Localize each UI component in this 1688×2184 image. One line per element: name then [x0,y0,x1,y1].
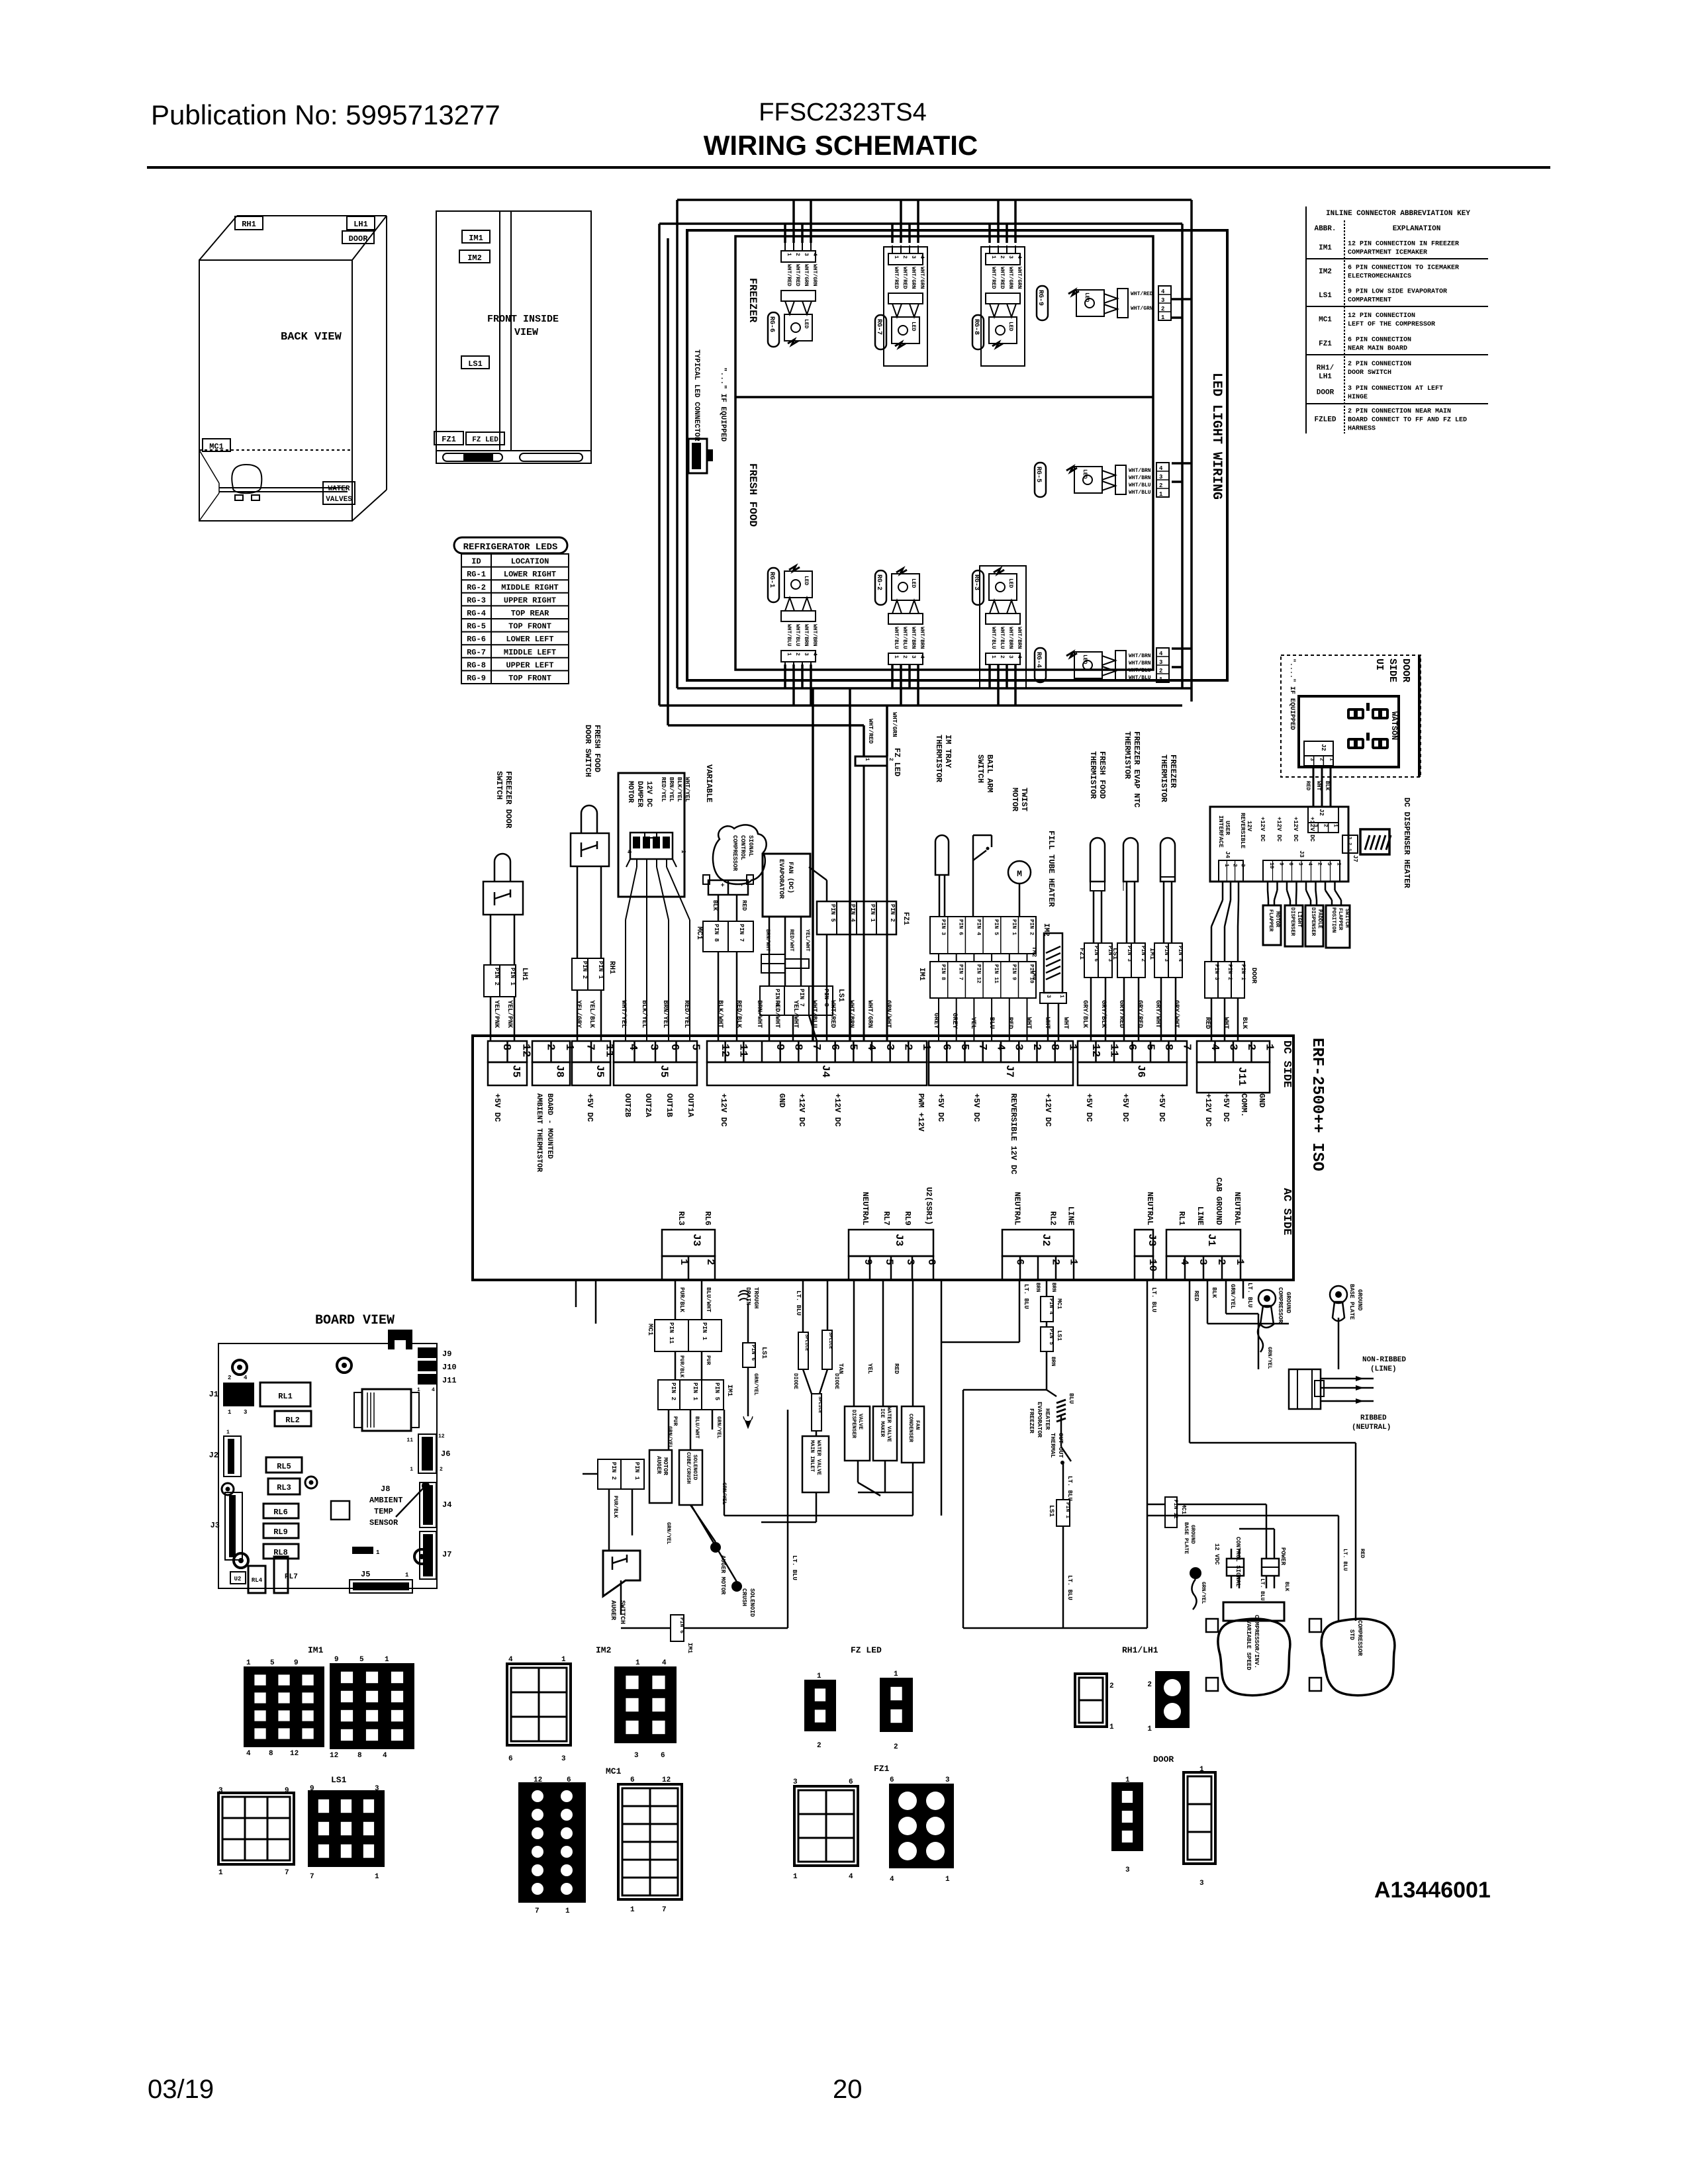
svg-text:BASE PLATE: BASE PLATE [1183,1522,1189,1554]
svg-text:INTERFACE: INTERFACE [1217,815,1224,848]
svg-text:2: 2 [902,655,908,659]
svg-text:TOP FRONT: TOP FRONT [508,622,551,631]
svg-text:DOOR: DOOR [1400,659,1411,682]
svg-text:LOWER LEFT: LOWER LEFT [506,635,553,644]
svg-text:VALVE: VALVE [857,1414,863,1430]
dispenser paddle box [1305,905,1323,946]
svg-text:6 PIN CONNECTION: 6 PIN CONNECTION [1348,336,1411,343]
svg-text:WHT/BRN: WHT/BRN [1129,475,1151,481]
svg-text:PIN 2: PIN 2 [581,961,588,979]
svg-text:WHT/GRN: WHT/GRN [803,264,809,287]
splice diode column 1 [802,1280,804,1332]
svg-text:1: 1 [561,1656,566,1664]
relay RL3 [268,1479,300,1494]
svg-text:9 PIN LOW SIDE EVAPORATOR: 9 PIN LOW SIDE EVAPORATOR [1348,289,1447,296]
svg-text:RG-1: RG-1 [768,572,775,588]
svg-text:GRY/RED: GRY/RED [1136,1000,1144,1028]
svg-text:LIGHT: LIGHT [1296,911,1302,927]
svg-text:CAB GROUND: CAB GROUND [1214,1177,1223,1225]
connector J1 board view [223,1383,254,1406]
svg-text:WHT/YEL: WHT/YEL [684,777,690,802]
connector J2 ac side [1002,1230,1074,1256]
auger pins 2 1 [598,1459,644,1489]
svg-text:RG-8: RG-8 [467,660,486,670]
svg-text:AMBIENT THERMISTOR: AMBIENT THERMISTOR [535,1093,543,1172]
svg-text:RH1: RH1 [242,220,256,229]
relay RL2 [275,1411,311,1426]
svg-text:7: 7 [285,1869,289,1877]
svg-text:ICE MAKER: ICE MAKER [879,1408,885,1437]
svg-text:1: 1 [1336,862,1342,866]
svg-text:(NEUTRAL): (NEUTRAL) [1352,1424,1391,1432]
svg-text:1: 1 [864,758,870,761]
svg-text:PWM +12V: PWM +12V [916,1093,925,1132]
svg-text:TYPICAL LED CONNECTOR: TYPICAL LED CONNECTOR [692,349,700,441]
svg-text:SPLICE: SPLICE [827,1332,833,1349]
svg-text:NEAR MAIN BOARD: NEAR MAIN BOARD [1348,345,1407,352]
connector J6 dc side [1078,1041,1187,1062]
svg-text:11: 11 [406,1437,413,1443]
svg-text:DOOR: DOOR [1317,389,1335,397]
svg-text:SIDE: SIDE [1387,659,1398,682]
svg-text:MC1: MC1 [1056,1298,1062,1310]
svg-text:DOOR: DOOR [1250,968,1257,983]
svg-text:WHT/BRN: WHT/BRN [803,624,809,647]
svg-text:USER: USER [1224,821,1231,835]
svg-text:DISPENSER: DISPENSER [1289,907,1295,936]
svg-text:7: 7 [662,1906,667,1914]
svg-text:WIRING SCHEMATIC: WIRING SCHEMATIC [704,130,978,161]
svg-text:DAMPER: DAMPER [635,781,643,807]
svg-text:FREEZER: FREEZER [1028,1408,1035,1433]
svg-text:1: 1 [635,1659,640,1667]
svg-text:YEL/WHT: YEL/WHT [804,929,810,952]
svg-text:LS1: LS1 [1056,1330,1062,1342]
svg-text:WHT/RED: WHT/RED [794,264,800,287]
typical led connector symbol [688,439,707,473]
svg-text:MIDDLE RIGHT: MIDDLE RIGHT [501,583,558,592]
svg-text:PIN 3: PIN 3 [940,919,946,935]
svg-text:RG-5: RG-5 [467,622,486,631]
svg-text:1: 1 [1066,1044,1078,1050]
svg-text:4: 4 [508,1656,513,1664]
label RH1 [235,216,263,230]
svg-text:12: 12 [718,1044,731,1057]
svg-text:1: 1 [990,655,996,659]
connector J7 board view [420,1531,436,1579]
front inside view cabinet [436,211,591,451]
svg-text:GND: GND [1257,1093,1266,1108]
relay RL6 [263,1504,299,1518]
svg-text:1: 1 [894,1670,898,1678]
lower bus wires [761,1522,816,1524]
relay RL7 [274,1557,288,1593]
wires into power block [1258,1340,1260,1379]
connector DOOR pins [1205,962,1244,998]
svg-text:3: 3 [647,1044,659,1050]
svg-text:LED: LED [803,319,809,329]
flapper motor box [1263,905,1281,945]
svg-text:2: 2 [1322,824,1328,827]
svg-text:4: 4 [432,1387,435,1393]
svg-text:7: 7 [810,1044,822,1050]
svg-text:WHT/RED: WHT/RED [867,719,874,744]
svg-text:RED: RED [741,900,747,911]
svg-text:2: 2 [1319,758,1325,761]
svg-text:PIN 2: PIN 2 [889,904,896,922]
horizontal distribution wires [724,1515,788,1517]
svg-text:FLAPPER: FLAPPER [1268,909,1274,932]
small component bar [352,1547,373,1554]
svg-text:BLU/WHT: BLU/WHT [694,1416,700,1439]
svg-text:J4: J4 [442,1500,451,1510]
svg-text:WHT: WHT [1062,1017,1069,1029]
svg-text:J4: J4 [1224,851,1231,858]
svg-text:SWITCH: SWITCH [494,771,504,799]
svg-text:1: 1 [405,1572,409,1578]
svg-text:WHT/BRN: WHT/BRN [1129,468,1151,474]
svg-text:THERMISTOR: THERMISTOR [1088,751,1098,799]
svg-text:BLU/WHT: BLU/WHT [705,1287,712,1312]
led module RG-5 [1066,467,1077,472]
svg-text:GROUND: GROUND [1190,1525,1196,1544]
svg-text:PIN 6: PIN 6 [1093,946,1099,962]
svg-text:BRN: BRN [1051,1283,1056,1293]
svg-text:J8: J8 [554,1065,566,1077]
label RG-2 [875,570,886,605]
svg-text:PIN 4: PIN 4 [849,904,856,923]
svg-text:IM1: IM1 [1148,948,1155,960]
svg-text:BLU: BLU [1068,1393,1074,1404]
svg-text:DOOR: DOOR [349,234,369,244]
auger motor wires [668,1410,670,1450]
main board outline ERF-2500 [473,1036,1293,1280]
svg-text:+5V DC: +5V DC [1084,1093,1094,1122]
svg-text:+12V DC: +12V DC [1276,817,1282,842]
connector J3 ac side [1135,1230,1153,1256]
svg-text:9: 9 [310,1785,314,1793]
svg-text:PUR: PUR [672,1416,678,1426]
svg-text:2: 2 [999,655,1005,659]
svg-text:J1: J1 [1205,1234,1217,1246]
svg-text:PIN 3: PIN 3 [1213,964,1219,980]
svg-text:MAIN INLET: MAIN INLET [809,1440,815,1472]
evaporator fan box [763,854,810,917]
svg-text:WHT/GRN: WHT/GRN [891,712,898,737]
svg-text:3: 3 [375,1785,379,1793]
back view base [199,449,352,451]
svg-text:1: 1 [893,655,899,659]
svg-text:FREEZER DOOR: FREEZER DOOR [504,771,513,829]
svg-text:SPLICE: SPLICE [817,1396,822,1413]
svg-text:4: 4 [246,1750,251,1758]
svg-text:12: 12 [330,1752,338,1760]
svg-text:+5V DC: +5V DC [492,1093,502,1122]
label RG-6 [768,312,779,347]
svg-text:4: 4 [626,850,632,854]
svg-text:PIN 3: PIN 3 [1163,946,1169,962]
svg-text:LH1: LH1 [353,220,368,229]
svg-text:CUBE/CRUSH: CUBE/CRUSH [685,1452,691,1484]
svg-text:WHT/BRN: WHT/BRN [919,627,925,649]
svg-text:2: 2 [1346,842,1352,845]
svg-text:J10: J10 [442,1363,457,1372]
connector MC1 pin11 pin1 [655,1320,722,1351]
svg-text:FILL TUBE HEATER: FILL TUBE HEATER [1047,831,1056,907]
svg-text:2: 2 [228,1375,231,1381]
svg-text:RL9: RL9 [903,1211,912,1226]
connector IM1 pin6 [671,1615,684,1641]
long lt blu bus from right [1019,1280,1021,1342]
svg-text:SOLENOID: SOLENOID [749,1588,755,1617]
power cord entry block [1289,1369,1321,1409]
relay RL4 [248,1566,265,1593]
svg-text:9: 9 [294,1659,299,1667]
svg-text:12: 12 [662,1776,671,1784]
led wiring bottom bus [784,664,786,688]
svg-text:4: 4 [1307,862,1313,866]
svg-text:FZ LED: FZ LED [472,436,498,444]
svg-text:9: 9 [773,1044,786,1050]
svg-text:IM TRAY: IM TRAY [943,735,953,768]
fz1 inline connector [817,901,896,934]
svg-text:BLK: BLK [712,900,718,911]
svg-text:COMPRESSOR: COMPRESSOR [1277,1287,1284,1324]
svg-text:WHT/BRN: WHT/BRN [1129,660,1151,666]
led module RG-6 [781,251,816,262]
svg-text:WHT: WHT [1222,1017,1229,1029]
svg-text:OUT1A: OUT1A [686,1093,695,1118]
svg-text:YEL/BLK: YEL/BLK [588,1000,596,1028]
led module RG-1 [789,566,800,571]
label RG-7 [875,315,886,349]
svg-text:LED LIGHT WIRING: LED LIGHT WIRING [1209,373,1224,500]
label FZ1 [434,432,463,445]
svg-text:2: 2 [902,1044,914,1050]
svg-text:GRN/YEL: GRN/YEL [1229,1284,1236,1309]
svg-text:AMBIENT: AMBIENT [369,1496,402,1505]
svg-text:FRONT INSIDE: FRONT INSIDE [487,314,559,325]
svg-text:2: 2 [1109,1682,1114,1690]
svg-text:+5V DC: +5V DC [936,1093,945,1122]
svg-text:+12V DC: +12V DC [1203,1093,1213,1126]
svg-text:IM1: IM1 [308,1645,324,1655]
svg-text:GRN/YEL: GRN/YEL [753,1373,759,1396]
svg-text:3: 3 [1312,824,1318,827]
svg-text:PIN 1: PIN 1 [597,961,604,979]
svg-text:1: 1 [410,1467,413,1473]
svg-text:YEL/PNK: YEL/PNK [506,1000,514,1028]
svg-text:+5V DC: +5V DC [972,1093,981,1122]
svg-text:LS1: LS1 [760,1347,767,1359]
svg-text:3: 3 [1240,864,1246,867]
svg-text:5: 5 [688,1044,701,1050]
connector J5 board view [350,1580,412,1593]
label LH1 [347,216,375,230]
user interface box [1210,807,1348,882]
svg-text:8: 8 [357,1752,362,1760]
svg-text:PIN 1: PIN 1 [1064,1502,1070,1518]
svg-text:PIN 1: PIN 1 [869,904,876,923]
svg-text:+5V DC: +5V DC [1157,1093,1166,1122]
svg-text:3: 3 [803,653,809,656]
board view outline [218,1343,437,1588]
svg-text:FZ LED: FZ LED [892,748,902,776]
svg-text:6: 6 [828,1044,841,1050]
connector LH1 pins [484,965,516,997]
svg-text:WHT/RED: WHT/RED [902,267,908,289]
svg-text:AUGER: AUGER [609,1600,616,1620]
svg-text:9: 9 [1278,862,1284,866]
svg-text:+: + [718,883,725,887]
svg-text:WHT/BLU: WHT/BLU [999,627,1005,649]
svg-text:1: 1 [680,850,686,854]
svg-text:NEUTRAL: NEUTRAL [1013,1192,1022,1225]
connector RH1 pins [572,958,604,990]
svg-text:MOTOR: MOTOR [626,781,634,803]
svg-text:2: 2 [704,1259,716,1265]
svg-text:NEUTRAL: NEUTRAL [1145,1192,1154,1225]
svg-text:RG-6: RG-6 [768,316,775,332]
svg-text:FRESH FOOD: FRESH FOOD [747,463,759,527]
ls1 pin row [760,986,833,1015]
svg-text:WHT/GRN: WHT/GRN [1016,267,1022,289]
svg-text:FZ1: FZ1 [874,1764,890,1774]
connector J9 J10 J11 board view [418,1347,436,1358]
connector J11 dc side [1197,1041,1270,1062]
svg-text:RED: RED [1359,1549,1365,1559]
damper motor connector [630,833,673,859]
svg-text:1: 1 [786,253,792,256]
svg-text:J5: J5 [361,1570,370,1579]
flapper position switch box [1326,905,1350,948]
svg-text:1: 1 [1159,676,1163,683]
dispenser light box [1285,905,1303,946]
svg-text:J1: J1 [209,1390,218,1399]
svg-text:REFRIGERATOR LEDS: REFRIGERATOR LEDS [463,542,558,553]
svg-text:DIODE: DIODE [833,1373,839,1389]
svg-text:LH1: LH1 [1319,373,1332,381]
svg-text:RG-6: RG-6 [467,635,486,644]
svg-text:2: 2 [794,653,800,656]
led wiring right bus [1190,200,1193,702]
svg-text:M: M [1017,869,1022,879]
svg-text:1: 1 [417,1387,420,1393]
svg-text:IM2: IM2 [596,1645,612,1655]
svg-text:2: 2 [902,255,908,259]
svg-text:GND: GND [777,1093,786,1108]
connector FZ1 pins 6 3 [1084,943,1112,978]
svg-text:1: 1 [246,1659,251,1667]
svg-text:"..." IF EQUIPPED: "..." IF EQUIPPED [719,367,727,442]
svg-text:HARNESS: HARNESS [1348,426,1376,433]
svg-text:LED: LED [910,322,916,332]
svg-text:J11: J11 [442,1376,457,1385]
svg-text:(LINE): (LINE) [1370,1365,1397,1373]
svg-text:3: 3 [1125,1866,1130,1874]
svg-text:BLK: BLK [1284,1582,1289,1592]
svg-text:PIN 8: PIN 8 [713,924,720,942]
svg-text:20: 20 [833,2075,863,2104]
svg-text:PIN 3: PIN 3 [1126,946,1132,962]
svg-text:2: 2 [894,1743,898,1751]
svg-text:RL3: RL3 [677,1211,686,1226]
svg-text:WHT/BLU: WHT/BLU [1129,668,1151,674]
top black connector board view [388,1330,412,1349]
svg-text:RED/WHT: RED/WHT [788,929,794,952]
svg-text:RL5: RL5 [277,1462,291,1471]
power cord line wires [1321,1378,1374,1380]
auger motor box [649,1450,672,1503]
svg-text:J3: J3 [1298,850,1305,858]
svg-text:GROUND: GROUND [1285,1292,1291,1314]
svg-text:COMM.: COMM. [1239,1093,1248,1117]
svg-text:RL1: RL1 [1177,1211,1186,1226]
label RG-9 [1037,286,1048,320]
svg-text:3: 3 [1199,1880,1204,1888]
svg-text:PIN 1: PIN 1 [701,1322,708,1341]
svg-text:IM2: IM2 [467,253,482,263]
svg-text:WATSON: WATSON [1389,711,1399,740]
svg-text:WHT/GRN: WHT/GRN [1008,267,1013,289]
svg-text:7: 7 [535,1907,539,1915]
connector IM2 pin row [930,917,1036,954]
svg-text:RL6: RL6 [273,1508,288,1517]
svg-text:LOCATION: LOCATION [511,557,549,567]
mounting holes [232,1360,247,1375]
label RG-5 [1035,463,1046,497]
svg-text:PIN 11: PIN 11 [993,964,999,983]
svg-text:PIN 9: PIN 9 [1011,964,1017,980]
svg-text:6: 6 [630,1776,635,1784]
svg-text:BLK: BLK [1241,1017,1248,1029]
svg-text:J3: J3 [211,1521,220,1530]
svg-text:INLINE CONNECTOR ABBREVIATION: INLINE CONNECTOR ABBREVIATION KEY [1326,210,1470,218]
svg-text:BRN/YEL: BRN/YEL [668,777,675,802]
svg-text:WHT/BLU: WHT/BLU [786,624,792,647]
svg-text:PADDLE: PADDLE [1317,909,1323,929]
ui wires down [1267,882,1269,890]
svg-text:BACK VIEW: BACK VIEW [281,331,342,343]
svg-text:WHT/BLU: WHT/BLU [990,627,996,649]
variable compressor inline connectors [1227,1559,1244,1576]
cube crush solenoid box [679,1450,702,1505]
svg-text:LT. BLU: LT. BLU [791,1555,798,1580]
svg-text:PIN 7: PIN 7 [958,964,964,980]
svg-text:1: 1 [1199,1766,1204,1774]
svg-text:1: 1 [786,653,792,656]
svg-text:1: 1 [893,255,899,259]
svg-text:GRN/YEL: GRN/YEL [716,1416,722,1439]
svg-text:1: 1 [1234,1259,1246,1265]
svg-text:RIBBED: RIBBED [1360,1414,1387,1422]
svg-text:BRN/WHT: BRN/WHT [765,929,771,952]
svg-text:1: 1 [1333,824,1338,827]
svg-text:1: 1 [565,1907,570,1915]
svg-text:12: 12 [290,1750,299,1758]
svg-text:PIN 2: PIN 2 [670,1383,677,1400]
svg-text:3 PIN CONNECTION AT LEFT: 3 PIN CONNECTION AT LEFT [1348,385,1443,392]
svg-text:WHT/YEL: WHT/YEL [620,1000,628,1028]
svg-text:J3: J3 [893,1234,905,1246]
svg-text:+12V DC: +12V DC [1309,817,1315,842]
svg-text:J5: J5 [594,1065,606,1077]
svg-text:PUR/BLK: PUR/BLK [679,1355,684,1378]
svg-text:1: 1 [919,1044,932,1050]
refrigerator leds title pill [454,537,567,553]
svg-text:-: - [737,883,745,887]
svg-text:WHT/GRN: WHT/GRN [919,267,925,289]
